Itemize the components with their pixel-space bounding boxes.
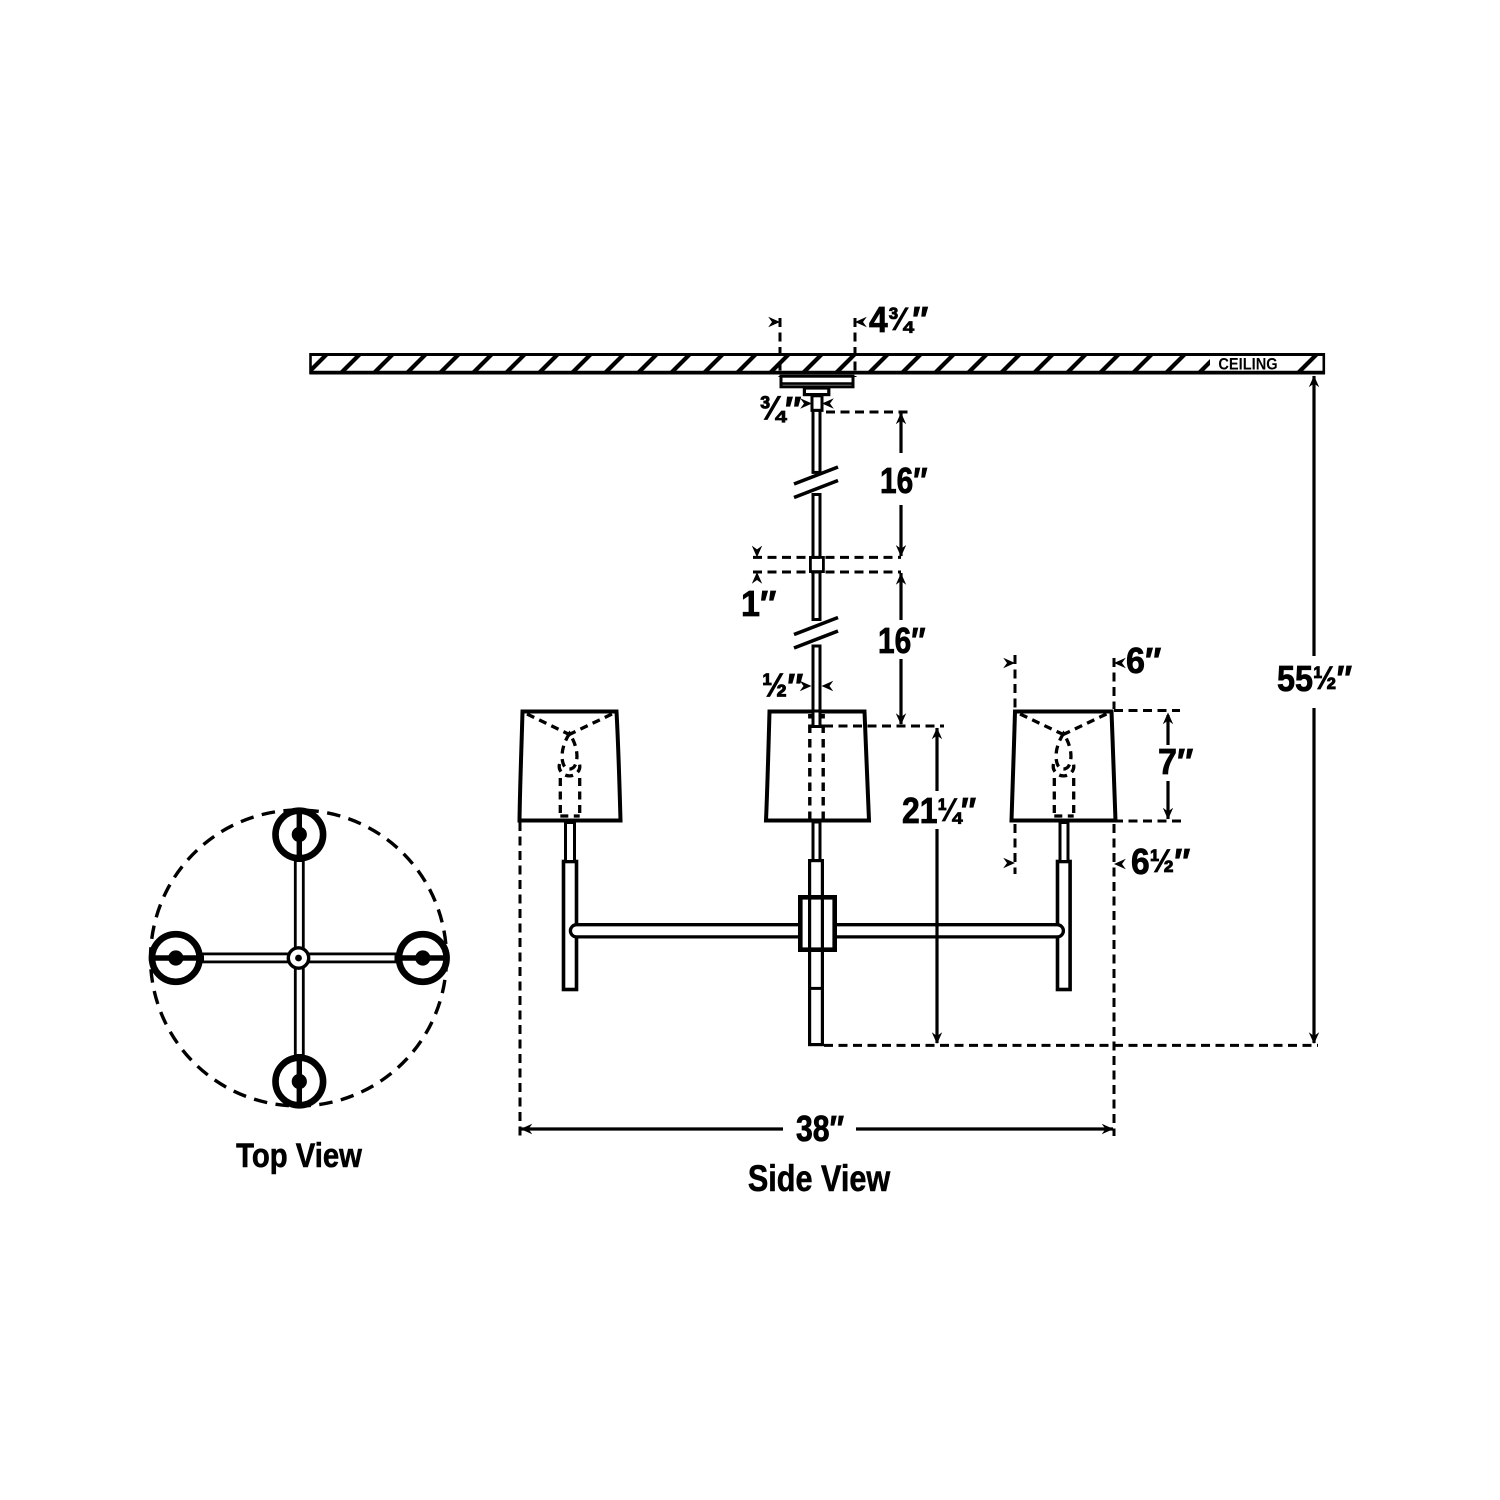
canopy neck: [804, 388, 828, 395]
left cross bar: [570, 925, 800, 937]
dim 4-3/4in guide lines: [780, 318, 855, 377]
right shade hidden spokes and candle (dashed): [1020, 714, 1107, 816]
svg-text:Side View: Side View: [748, 1158, 891, 1199]
dim 4-3/4in arrows: [768, 317, 867, 327]
stem stub (3/4 inch wide): [812, 396, 822, 411]
top view hub: [288, 948, 308, 968]
left shade hidden spokes and candle (dashed): [527, 714, 612, 816]
top view arm tubes: [202, 860, 398, 1056]
top view bulb axis lines: [150, 809, 450, 1108]
svg-text:7″: 7″: [1158, 742, 1193, 782]
dim 6-1/2in arrows: [1003, 858, 1126, 869]
stem rod segment 1: [813, 410, 820, 472]
dim 7in guide lines: [1114, 711, 1186, 822]
top view bulb dots: [168, 827, 430, 1089]
stem rod segment 5: [813, 822, 820, 862]
svg-text:55½″: 55½″: [1277, 659, 1352, 699]
rod coupling collar: [810, 557, 823, 571]
top view dashed circle: [151, 810, 447, 1106]
dim 6in arrows: [1003, 658, 1126, 668]
right cross bar: [835, 925, 1063, 937]
right candle stem: [1060, 823, 1068, 862]
svg-text:¾″: ¾″: [759, 389, 801, 430]
rod break symbol 2: [794, 618, 838, 649]
left shade: [520, 712, 621, 821]
stem rod segment 2: [813, 495, 820, 558]
stem rod segment 4: [813, 646, 820, 726]
central hub block: [800, 897, 834, 949]
dim 3/4in arrows: [800, 398, 834, 408]
dim 21-1/4in dimension line and arrows: [932, 728, 942, 1045]
center shade rod top (solid): [813, 711, 820, 727]
dim 16in upper dimension line and arrows: [896, 413, 906, 557]
svg-text:6″: 6″: [1126, 641, 1161, 681]
svg-text:½″: ½″: [762, 666, 804, 707]
canopy plate: [780, 376, 854, 387]
svg-text:1″: 1″: [741, 584, 776, 624]
dim 6in guide lines: [1015, 655, 1114, 709]
dim 1/2in arrows: [800, 681, 834, 691]
svg-text:4¾″: 4¾″: [869, 300, 929, 341]
dim 7in dimension line and arrows: [1163, 713, 1173, 820]
right shade: [1012, 712, 1116, 821]
svg-text:16″: 16″: [878, 621, 926, 662]
svg-text:38″: 38″: [796, 1109, 844, 1149]
svg-text:Top View: Top View: [236, 1136, 362, 1175]
svg-text:CEILING: CEILING: [1218, 356, 1277, 374]
dim 16in lower dimension line and arrows: [896, 573, 906, 725]
dim 21-1/4in guide line: [824, 725, 944, 728]
left arm column: [564, 862, 577, 990]
dim 1in guide lines: [753, 557, 901, 572]
svg-text:6½″: 6½″: [1131, 842, 1191, 883]
dim 6-1/2in guide line: [1014, 824, 1017, 874]
right arm column: [1058, 862, 1071, 990]
top view bulb rings: [152, 811, 447, 1106]
center shade: [766, 712, 869, 821]
rod break symbol 1: [794, 467, 838, 498]
svg-text:21¼″: 21¼″: [902, 791, 976, 831]
svg-text:16″: 16″: [880, 461, 928, 502]
central column: [808, 861, 824, 1045]
dim 1in arrows: [752, 546, 762, 584]
center shade hidden rod (dashed): [810, 714, 823, 820]
bottom reference dashed line: [824, 1044, 1318, 1047]
dim 38in dimension line and arrows: [521, 1124, 1114, 1134]
dim 16in upper guide line: [826, 411, 908, 414]
stem rod segment 3: [813, 572, 820, 620]
ceiling hatched band: [310, 353, 1326, 374]
dim 38in guide lines: [520, 822, 1114, 1136]
dim 55-1/2in dimension line and arrows: [1309, 376, 1319, 1045]
left candle stem: [566, 823, 575, 862]
